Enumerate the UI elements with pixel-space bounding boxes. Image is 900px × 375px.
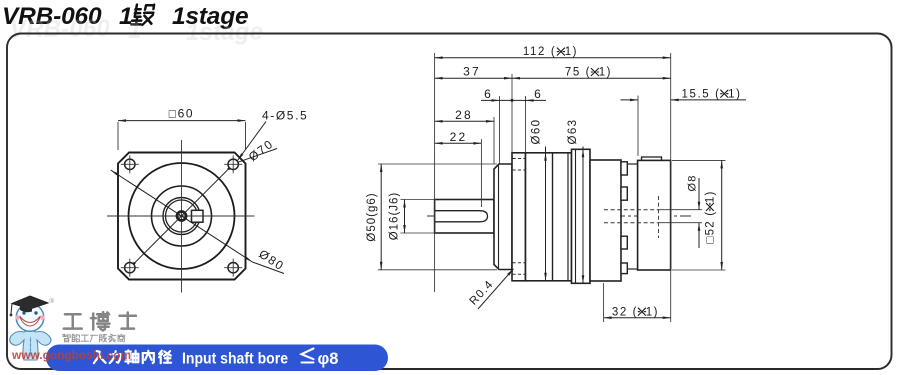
label R0.4 with leader bbox=[478, 269, 514, 309]
dim 22 bbox=[435, 142, 482, 144]
svg-text:Input shaft bore: Input shaft bore bbox=[182, 351, 288, 368]
banner <= phi 8 bbox=[302, 349, 314, 363]
side view main centerline bbox=[427, 215, 691, 217]
dim 32 bbox=[604, 317, 671, 319]
gear housing body D60 bbox=[526, 153, 572, 281]
connector lines to motor block bbox=[627, 163, 637, 165]
motor mount block bbox=[642, 157, 662, 161]
svg-text:Ø63: Ø63 bbox=[567, 119, 579, 145]
dim 112 bbox=[435, 57, 671, 59]
4 bolt holes with crosshairs bbox=[125, 159, 135, 169]
dim 28 bbox=[435, 120, 494, 122]
svg-text:15.5 (: 15.5 ( bbox=[682, 88, 721, 100]
svg-text:32 (: 32 ( bbox=[612, 306, 638, 318]
dim D50 g6 bbox=[378, 163, 497, 165]
clamp tabs on adapter bbox=[621, 162, 627, 175]
circle boss (front) bbox=[152, 186, 212, 246]
svg-text:1stage: 1stage bbox=[186, 18, 264, 46]
front view centerlines bbox=[181, 140, 183, 293]
svg-text:112 (: 112 ( bbox=[523, 46, 556, 58]
svg-text:□60: □60 bbox=[169, 107, 194, 121]
dim D16 J6 bbox=[401, 199, 437, 201]
svg-text:37: 37 bbox=[463, 65, 481, 79]
svg-text:6: 6 bbox=[534, 87, 541, 101]
svg-text:φ8: φ8 bbox=[318, 350, 339, 368]
blue banner pill bbox=[46, 345, 388, 372]
extension lines vertical bbox=[434, 53, 436, 292]
svg-text:1): 1) bbox=[728, 88, 741, 100]
dim 37 bbox=[435, 77, 512, 79]
dim D60 bbox=[545, 147, 547, 281]
keyway square on shaft ring bbox=[192, 210, 204, 222]
svg-text:®: ® bbox=[50, 297, 55, 305]
banner CJK: input shaft bore japanese bbox=[94, 351, 106, 363]
svg-text:6: 6 bbox=[484, 87, 491, 101]
dim D63 bbox=[582, 147, 584, 284]
svg-text:VRB-060: VRB-060 bbox=[10, 15, 111, 43]
svg-text:1): 1) bbox=[599, 67, 612, 79]
ring gear D63 bbox=[572, 149, 591, 283]
svg-text:4-Ø5.5: 4-Ø5.5 bbox=[262, 109, 308, 123]
dim square52 bbox=[672, 159, 726, 161]
svg-text:Ø16(J6): Ø16(J6) bbox=[389, 192, 401, 241]
logo slogan small glyphs bbox=[63, 334, 70, 342]
dim 75 bbox=[512, 77, 671, 79]
pilot ring D50 g6 bbox=[494, 164, 512, 270]
svg-text:□52 (: □52 ( bbox=[705, 211, 717, 244]
dimension leader diagonal for circle D70 bbox=[129, 164, 234, 269]
front plate (flange) bbox=[512, 153, 526, 281]
dim 6 and 6 bbox=[481, 99, 546, 101]
dim 15.5 bbox=[621, 99, 639, 101]
hidden bore D8 dashed bbox=[604, 209, 659, 211]
circle D50 pilot (front) bbox=[129, 163, 235, 269]
logo text gong bo shi bbox=[64, 314, 82, 328]
svg-text:Ø8: Ø8 bbox=[687, 174, 699, 191]
front flange square with chamfered corners bbox=[118, 153, 246, 280]
faint ghost echo of title (watermark artifact) bbox=[10, 15, 264, 46]
svg-text:22: 22 bbox=[450, 130, 468, 144]
dimension square60 bbox=[117, 122, 119, 150]
svg-text:1): 1) bbox=[646, 306, 659, 318]
svg-text:www.gongboshi.com: www.gongboshi.com bbox=[11, 348, 131, 362]
dim D8 bbox=[659, 209, 703, 211]
svg-text:Ø60: Ø60 bbox=[531, 119, 543, 145]
svg-text:Ø50(g6): Ø50(g6) bbox=[366, 192, 378, 241]
input shaft side bbox=[435, 200, 494, 234]
shaft hollow bore D8 with drill cap bbox=[435, 210, 480, 212]
svg-text:28: 28 bbox=[455, 108, 473, 122]
svg-text:1): 1) bbox=[565, 46, 578, 58]
svg-text:1): 1) bbox=[705, 190, 717, 203]
svg-text:1: 1 bbox=[128, 17, 141, 44]
center bore circle bbox=[177, 212, 186, 221]
svg-text:75 (: 75 ( bbox=[565, 67, 591, 79]
dimension leader diagonal for circle D80 bbox=[111, 170, 253, 262]
input shaft double ring D16 bbox=[163, 198, 200, 235]
watermark mascot logo bbox=[10, 296, 55, 360]
rear adapter housing bbox=[590, 160, 621, 281]
flange bolt holes hidden lines bbox=[513, 158, 526, 160]
